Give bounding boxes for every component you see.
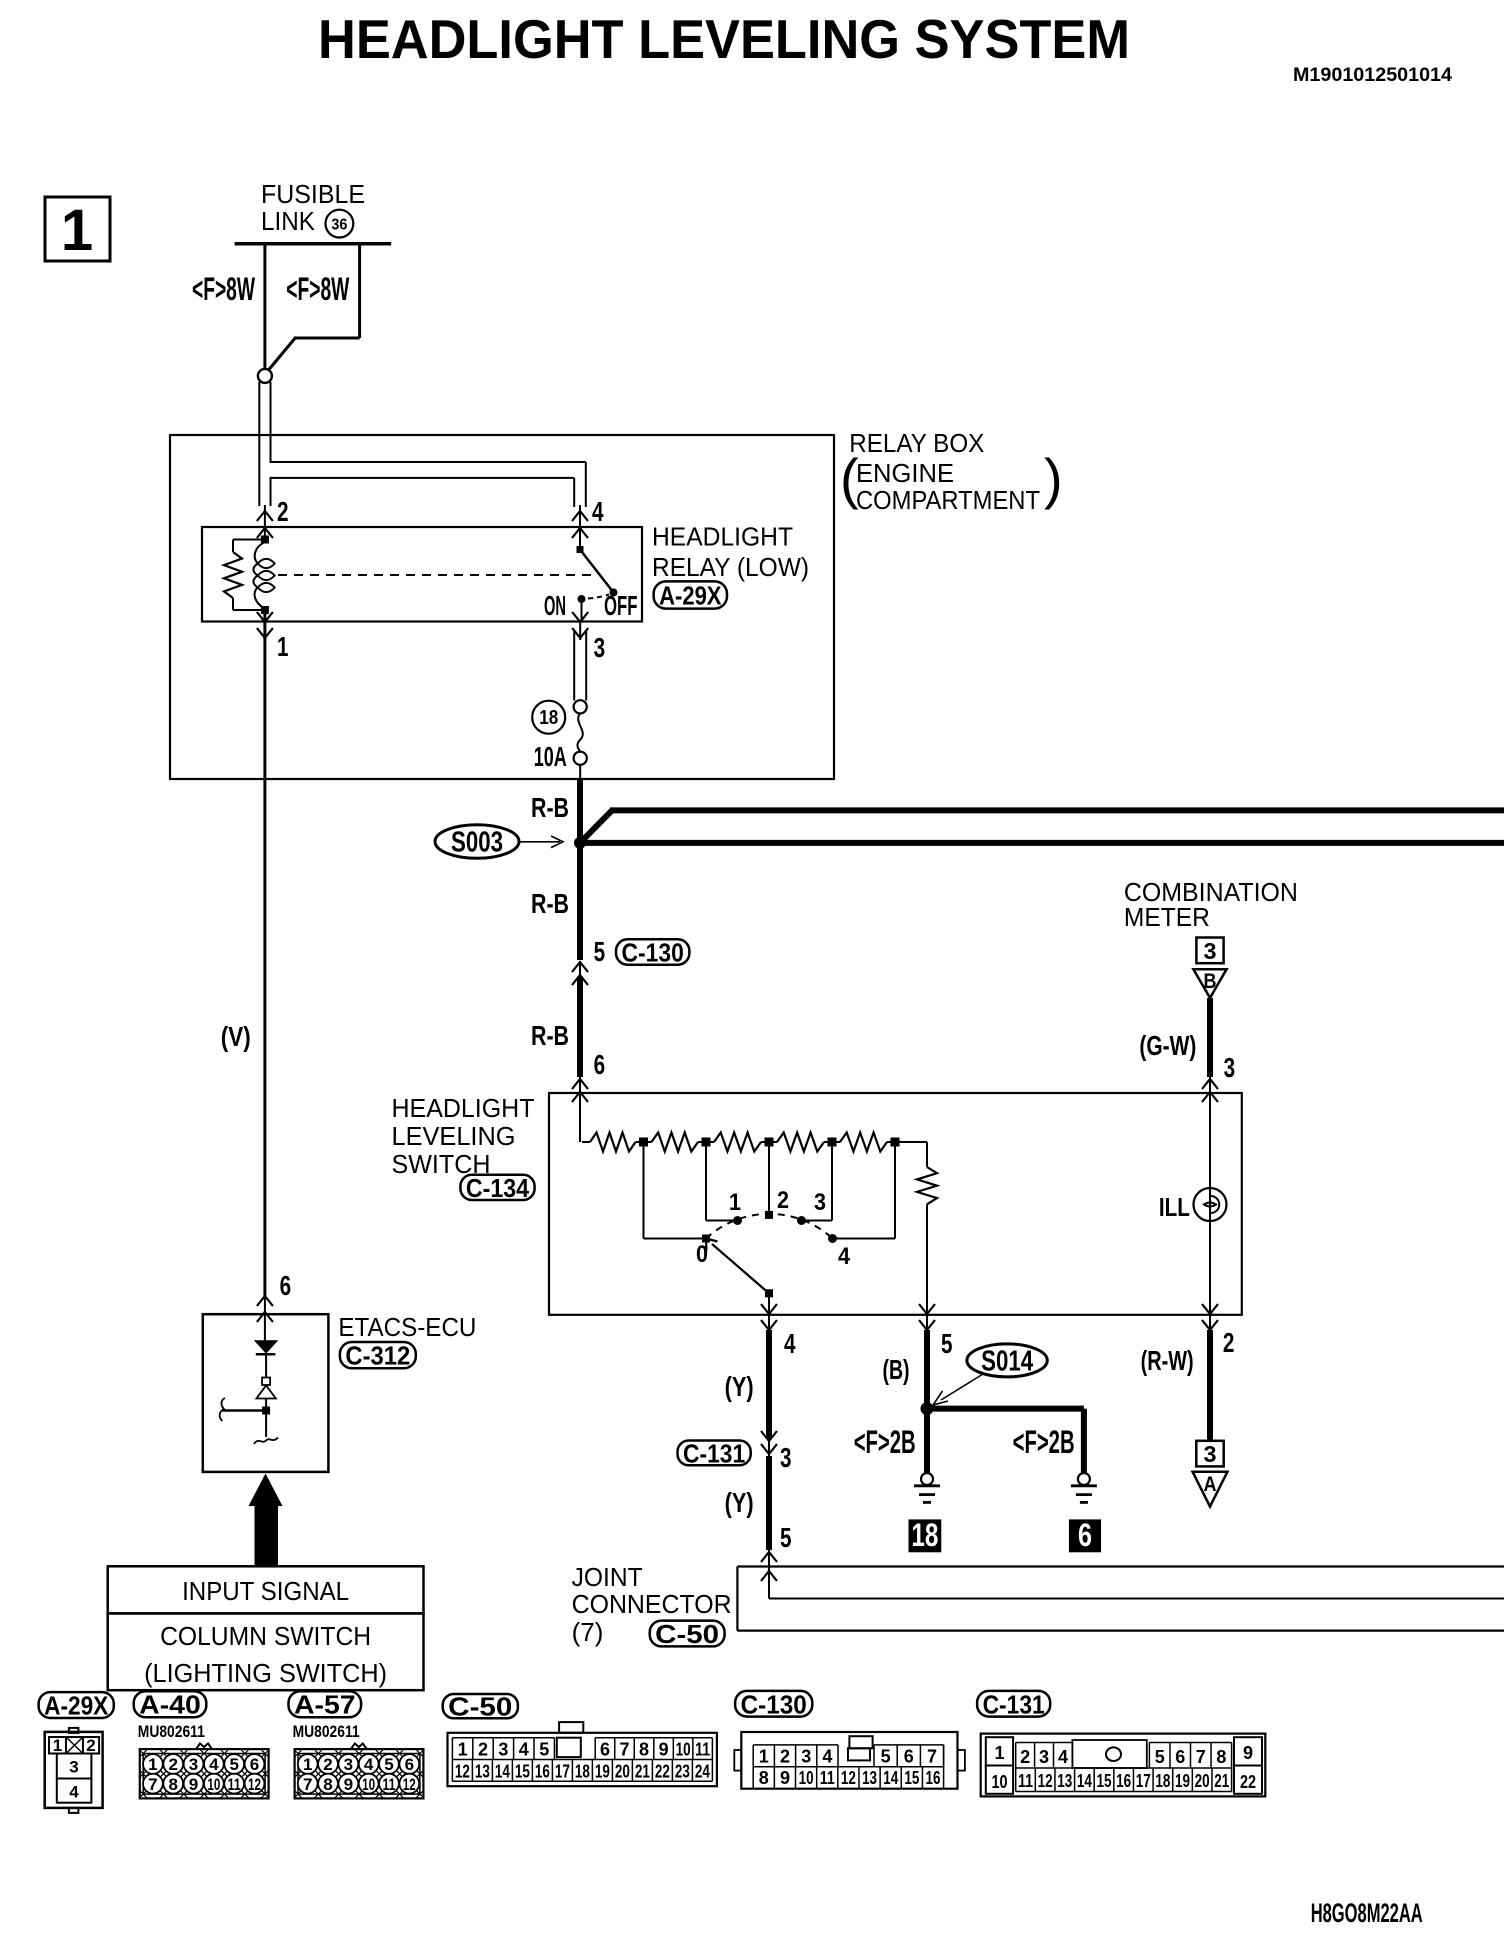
fusible link bus bar [235, 242, 392, 246]
svg-text:4: 4 [784, 1328, 796, 1359]
svg-text:19: 19 [1175, 1771, 1190, 1791]
relay pin 2 arrow [257, 511, 273, 521]
svg-text:3: 3 [498, 1740, 508, 1760]
svg-text:11: 11 [228, 1775, 241, 1794]
svg-text:18: 18 [1155, 1771, 1170, 1791]
svg-text:8: 8 [1216, 1747, 1226, 1767]
svg-text:(V): (V) [221, 1021, 251, 1052]
relay pin 4 arrow [572, 511, 588, 521]
svg-text:8: 8 [639, 1740, 649, 1760]
svg-text:INPUT SIGNAL: INPUT SIGNAL [182, 1576, 349, 1606]
svg-text:24: 24 [695, 1762, 710, 1782]
svg-text:C-130: C-130 [622, 938, 684, 968]
fusible link number 36 [326, 210, 354, 238]
svg-text:FUSIBLE: FUSIBLE [261, 179, 365, 209]
connector A-29X drawing [69, 1728, 79, 1733]
relay switch to pin 3 wire [581, 599, 583, 622]
svg-text:2: 2 [277, 496, 289, 527]
svg-text:A-29X: A-29X [44, 1691, 109, 1721]
svg-text:A: A [1204, 1473, 1217, 1496]
page ref triangle A [1193, 1472, 1228, 1507]
connector ref C-50 [650, 1621, 725, 1647]
svg-text:HEADLIGHT: HEADLIGHT [392, 1093, 535, 1123]
svg-text:5: 5 [941, 1328, 953, 1359]
node S014 [921, 1402, 934, 1415]
svg-text:1: 1 [53, 1736, 62, 1755]
fusible link left lead <F>8W [263, 244, 266, 370]
svg-text:1: 1 [61, 198, 93, 263]
svg-text:2: 2 [777, 1187, 789, 1214]
relay pin 1 arrow [257, 612, 273, 622]
svg-text:6: 6 [600, 1740, 610, 1760]
svg-text:COLUMN SWITCH: COLUMN SWITCH [160, 1621, 371, 1651]
svg-text:3: 3 [1224, 1052, 1236, 1083]
svg-text:M1901012501014: M1901012501014 [1293, 65, 1452, 86]
svg-text:3: 3 [344, 1755, 353, 1774]
svg-text:13: 13 [862, 1768, 877, 1788]
svg-text:<F>2B: <F>2B [854, 1424, 916, 1460]
svg-text:HEADLIGHT: HEADLIGHT [652, 522, 793, 552]
svg-text:METER: METER [1124, 902, 1210, 932]
svg-text:18: 18 [575, 1762, 590, 1782]
svg-text:12: 12 [455, 1762, 470, 1782]
relay switch contacts [577, 546, 584, 553]
svg-text:18: 18 [539, 707, 558, 729]
wire node to right ground (thick) [927, 1406, 1084, 1412]
svg-text:(R-W): (R-W) [1141, 1345, 1194, 1376]
svg-text:16: 16 [1116, 1771, 1131, 1791]
splice label S003 [435, 825, 519, 859]
wire fuse to relay box edge [579, 765, 581, 779]
ground ref 18 [909, 1519, 942, 1552]
svg-text:4: 4 [838, 1243, 851, 1270]
column switch box [108, 1613, 424, 1690]
svg-text:A-57: A-57 [294, 1690, 356, 1720]
svg-text:14: 14 [883, 1768, 898, 1788]
svg-text:3: 3 [189, 1755, 198, 1774]
svg-text:4: 4 [592, 496, 604, 527]
connector C-50 drawing [559, 1722, 583, 1733]
svg-text:C-131: C-131 [983, 1689, 1045, 1719]
svg-text:1: 1 [303, 1755, 312, 1774]
svg-text:R-B: R-B [531, 888, 569, 919]
connector ref A-29X [654, 581, 727, 608]
svg-text:10: 10 [799, 1768, 814, 1788]
svg-text:11: 11 [820, 1768, 835, 1788]
leveling switch pin 4 arrow [761, 1304, 777, 1314]
svg-text:5: 5 [780, 1522, 792, 1553]
svg-text:6: 6 [1078, 1517, 1092, 1553]
svg-text:11: 11 [1018, 1771, 1033, 1791]
wire node to left ground (thick) [924, 1409, 930, 1473]
svg-text:ILL: ILL [1159, 1192, 1190, 1222]
svg-text:5: 5 [881, 1747, 891, 1767]
svg-text:21: 21 [635, 1762, 650, 1782]
svg-text:<F>2B: <F>2B [1013, 1424, 1075, 1460]
svg-text:7: 7 [1196, 1747, 1206, 1767]
svg-text:12: 12 [248, 1775, 261, 1794]
svg-text:C-50: C-50 [448, 1692, 512, 1722]
joint connector box [737, 1565, 1504, 1567]
svg-text:5: 5 [1155, 1747, 1165, 1767]
wire V relay pin 1 to ETACS pin 6 [263, 610, 266, 1296]
wire R-B node to C-130 (thick) [577, 846, 583, 960]
svg-text:21: 21 [1214, 1771, 1229, 1791]
wire double-rail pin 3 to fuse [573, 630, 575, 701]
svg-text:17: 17 [555, 1762, 570, 1782]
svg-text:3: 3 [801, 1747, 811, 1767]
page ref box 3 (A) [1196, 1441, 1223, 1467]
wire R-W pin 2 to page ref (thick) [1207, 1330, 1213, 1441]
svg-text:4: 4 [1058, 1747, 1068, 1767]
ground left [921, 1473, 933, 1485]
svg-text:HEADLIGHT LEVELING SYSTEM: HEADLIGHT LEVELING SYSTEM [318, 8, 1130, 70]
node S003 [574, 837, 586, 849]
fusible link junction circle [258, 369, 272, 383]
svg-text:8: 8 [323, 1775, 332, 1794]
svg-text:12: 12 [1038, 1771, 1053, 1791]
rotary wiper arm [712, 1244, 769, 1293]
fusible link right lead <F>8W [358, 244, 361, 338]
svg-text:6: 6 [250, 1755, 259, 1774]
connector ref C-131 (bottom) [977, 1691, 1050, 1717]
svg-text:(Y): (Y) [725, 1371, 754, 1402]
relay resistor [233, 539, 265, 541]
connector ref C-130 (bottom) [735, 1691, 812, 1717]
connector ref C-312 [340, 1342, 416, 1368]
svg-text:): ) [1044, 447, 1063, 510]
svg-text:9: 9 [344, 1775, 353, 1794]
wire resistor to pin 5 [926, 1204, 928, 1330]
wire G-W meter to leveling switch pin 3 (thick) [1207, 998, 1213, 1077]
svg-text:10: 10 [676, 1740, 691, 1760]
svg-text:OFF: OFF [604, 590, 638, 621]
svg-text:2: 2 [323, 1755, 332, 1774]
svg-text:6: 6 [1175, 1747, 1185, 1767]
relay mechanical link dashed [278, 574, 594, 576]
page index box 1 [45, 197, 110, 261]
ETACS-ECU box [203, 1314, 329, 1472]
svg-text:20: 20 [1195, 1771, 1210, 1791]
page ref box 3 (meter) [1196, 938, 1223, 964]
leveling switch resistor chain [582, 1141, 590, 1143]
wire double-rail from fusible link down to relay pin 2 [258, 382, 260, 506]
wire center line into pin 2 [264, 505, 266, 540]
connector A-57 drawing [295, 1749, 424, 1798]
wire R-B C-130 to leveling switch pin 6 (thick) [577, 978, 583, 1077]
svg-text:3: 3 [814, 1189, 826, 1216]
svg-text:19: 19 [595, 1762, 610, 1782]
contact 2 drop wire [768, 1142, 770, 1215]
svg-text:C-130: C-130 [741, 1689, 807, 1719]
connector ref A-40 (bottom) [134, 1691, 207, 1717]
fuse 18 10A [574, 700, 587, 713]
svg-text:10A: 10A [534, 741, 567, 772]
connector ref A-57 (bottom) [289, 1691, 362, 1717]
svg-text:2: 2 [168, 1755, 177, 1774]
svg-text:3: 3 [69, 1758, 78, 1777]
svg-text:S014: S014 [981, 1346, 1033, 1378]
svg-text:8: 8 [168, 1775, 177, 1794]
ETACS pin 6 arrow [257, 1296, 273, 1306]
wire B pin 5 to node S014 (thick) [924, 1330, 930, 1409]
svg-text:<F>8W: <F>8W [286, 271, 349, 307]
svg-text:15: 15 [1097, 1771, 1112, 1791]
arrow S014 to node [941, 1374, 983, 1400]
svg-text:13: 13 [1057, 1771, 1072, 1791]
svg-text:ON: ON [544, 590, 566, 621]
wire R-B relay to node S003 (thick) [577, 779, 583, 840]
svg-text:R-B: R-B [531, 792, 569, 823]
svg-text:3: 3 [780, 1442, 792, 1473]
svg-text:<F>8W: <F>8W [192, 271, 255, 307]
svg-text:14: 14 [1077, 1771, 1092, 1791]
leveling switch pin 3 arrow [1202, 1079, 1218, 1089]
headlight relay (low) inner box [202, 527, 642, 622]
svg-text:7: 7 [148, 1775, 157, 1794]
svg-text:2: 2 [1020, 1747, 1030, 1767]
input signal box [108, 1566, 424, 1613]
svg-text:R-B: R-B [531, 1020, 569, 1051]
relay coil [261, 536, 269, 544]
contact 3 drop wire [831, 1142, 833, 1221]
svg-text:12: 12 [841, 1768, 856, 1788]
svg-text:(LIGHTING SWITCH): (LIGHTING SWITCH) [144, 1658, 387, 1688]
svg-text:20: 20 [615, 1762, 630, 1782]
leveling switch pin 6 arrow [572, 1079, 588, 1089]
svg-text:B: B [1204, 970, 1217, 993]
svg-text:MU802611: MU802611 [293, 1722, 360, 1741]
svg-text:C-312: C-312 [345, 1341, 410, 1371]
connector C-130 drawing [734, 1750, 741, 1771]
svg-text:(G-W): (G-W) [1139, 1030, 1196, 1061]
connector ref C-50 (bottom) [443, 1694, 518, 1718]
svg-text:COMPARTMENT: COMPARTMENT [856, 485, 1040, 515]
relay box (engine compartment) outline [170, 435, 834, 779]
svg-text:C-134: C-134 [466, 1173, 530, 1203]
page ref triangle B [1193, 969, 1226, 998]
svg-text:H8GO8M22AA: H8GO8M22AA [1311, 1898, 1423, 1928]
svg-text:5: 5 [384, 1755, 393, 1774]
ETACS transistor junction [262, 1407, 270, 1415]
input signal arrow [249, 1474, 283, 1507]
svg-text:11: 11 [695, 1740, 710, 1760]
ETACS diode [255, 1341, 277, 1353]
ground right [1078, 1473, 1090, 1485]
svg-text:LEVELING: LEVELING [392, 1121, 516, 1151]
headlight leveling switch box [549, 1093, 1242, 1315]
svg-text:(7): (7) [572, 1617, 604, 1647]
svg-text:9: 9 [659, 1740, 669, 1760]
svg-text:LINK: LINK [261, 206, 316, 236]
svg-text:3: 3 [1204, 938, 1217, 964]
connector C-131 drawing [981, 1734, 1266, 1797]
svg-text:(B): (B) [883, 1354, 910, 1385]
svg-text:S003: S003 [451, 827, 503, 859]
svg-text:CONNECTOR: CONNECTOR [572, 1589, 732, 1619]
svg-text:(: ( [840, 447, 859, 510]
splice label S014 [967, 1344, 1047, 1377]
svg-text:10: 10 [362, 1775, 375, 1794]
connector ref C-134 [460, 1175, 534, 1200]
connector ref A-29X (bottom) [39, 1692, 114, 1718]
svg-text:A-40: A-40 [139, 1690, 201, 1720]
svg-text:3: 3 [1204, 1441, 1217, 1467]
svg-text:22: 22 [1240, 1772, 1256, 1792]
svg-text:16: 16 [535, 1762, 550, 1782]
svg-text:5: 5 [229, 1755, 238, 1774]
ground ref 6 [1069, 1519, 1101, 1552]
svg-text:2: 2 [86, 1736, 95, 1755]
svg-text:12: 12 [403, 1775, 416, 1794]
svg-text:4: 4 [364, 1755, 374, 1774]
svg-text:ENGINE: ENGINE [856, 458, 954, 488]
rotary contacts [702, 1235, 710, 1243]
connector A-40 drawing [140, 1749, 269, 1798]
svg-text:4: 4 [519, 1740, 529, 1760]
svg-text:6: 6 [594, 1049, 606, 1080]
svg-text:1: 1 [759, 1747, 769, 1767]
svg-text:3: 3 [1039, 1747, 1049, 1767]
svg-text:23: 23 [675, 1762, 690, 1782]
ILL lamp wire from pin 3 (G-W) [1209, 1093, 1211, 1330]
svg-text:JOINT: JOINT [572, 1562, 643, 1592]
svg-text:17: 17 [1136, 1771, 1151, 1791]
svg-text:6: 6 [280, 1270, 292, 1301]
svg-text:MU802611: MU802611 [138, 1722, 205, 1741]
svg-text:(Y): (Y) [725, 1487, 754, 1518]
arrow S003 to node [519, 841, 560, 843]
svg-text:9: 9 [189, 1775, 198, 1794]
ETACS comparator symbol [262, 1378, 270, 1386]
svg-text:36: 36 [331, 217, 347, 234]
leveling switch pin 2 arrow [1202, 1304, 1218, 1314]
svg-text:7: 7 [927, 1747, 937, 1767]
svg-text:6: 6 [405, 1755, 414, 1774]
contact 4 drop wire [894, 1142, 896, 1239]
svg-text:8: 8 [759, 1768, 769, 1788]
svg-text:7: 7 [303, 1775, 312, 1794]
svg-text:1: 1 [458, 1740, 468, 1760]
joint connector pin 5 arrow [761, 1552, 777, 1562]
svg-text:10: 10 [207, 1775, 220, 1794]
leveling switch right resistor [926, 1142, 928, 1167]
wire branch double-rail to relay pin 4 [270, 461, 586, 463]
svg-text:13: 13 [475, 1762, 490, 1782]
svg-text:9: 9 [1243, 1743, 1253, 1763]
bus wire lower to right edge [580, 840, 1504, 846]
svg-text:11: 11 [382, 1775, 395, 1794]
bus wire upper to right edge [580, 810, 612, 843]
wire inside joint connector [768, 1550, 770, 1599]
svg-text:9: 9 [780, 1768, 790, 1788]
svg-text:6: 6 [904, 1747, 914, 1767]
svg-text:14: 14 [495, 1762, 510, 1782]
contact 1 drop wire [705, 1142, 707, 1221]
svg-text:2: 2 [1223, 1327, 1235, 1358]
ILL lamp [1194, 1188, 1227, 1221]
relay pin 3 arrow [572, 612, 588, 622]
contact 0 drop wire [643, 1142, 645, 1239]
svg-text:1: 1 [994, 1743, 1004, 1763]
wire Y C-131 to joint connector (thick) [766, 1456, 772, 1550]
svg-text:1: 1 [729, 1189, 741, 1216]
svg-text:4: 4 [209, 1755, 219, 1774]
wire wiper to pin 4 [768, 1293, 770, 1330]
svg-text:7: 7 [620, 1740, 630, 1760]
svg-text:RELAY (LOW): RELAY (LOW) [652, 552, 809, 582]
svg-text:1: 1 [277, 631, 289, 662]
svg-text:18: 18 [911, 1517, 938, 1553]
connector crossing C-130 pin 5 [572, 962, 588, 972]
svg-text:5: 5 [539, 1740, 549, 1760]
svg-text:1: 1 [148, 1755, 157, 1774]
leveling switch pin 5 arrow [919, 1304, 935, 1314]
wire Y pin 4 to C-131 (thick) [766, 1330, 772, 1438]
svg-text:2: 2 [478, 1740, 488, 1760]
svg-text:4: 4 [822, 1747, 832, 1767]
svg-text:2: 2 [780, 1747, 790, 1767]
svg-text:15: 15 [904, 1768, 919, 1788]
svg-text:ETACS-ECU: ETACS-ECU [338, 1312, 476, 1342]
svg-text:4: 4 [69, 1783, 79, 1802]
svg-text:22: 22 [655, 1762, 670, 1782]
svg-text:10: 10 [992, 1772, 1008, 1792]
svg-text:A-29X: A-29X [659, 581, 722, 611]
svg-text:3: 3 [594, 632, 606, 663]
svg-text:RELAY BOX: RELAY BOX [849, 428, 984, 458]
svg-text:5: 5 [594, 936, 606, 967]
svg-text:16: 16 [926, 1768, 941, 1788]
connector crossing C-131 pin 3 [761, 1431, 777, 1441]
svg-text:15: 15 [515, 1762, 530, 1782]
svg-text:C-50: C-50 [655, 1619, 719, 1649]
rotary contact arc dashed [706, 1214, 833, 1239]
svg-text:C-131: C-131 [683, 1438, 745, 1468]
